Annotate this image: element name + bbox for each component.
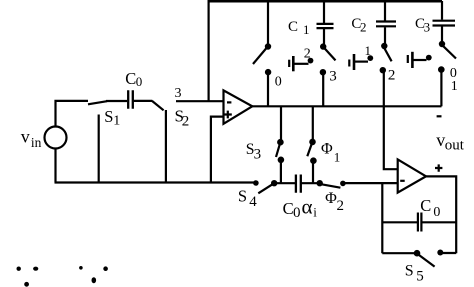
svg-text:1: 1 (113, 113, 120, 128)
switch S1 arm (88, 101, 107, 104)
svg-text:0: 0 (275, 75, 282, 90)
node C1 switch top contact (320, 43, 326, 49)
svg-text:2: 2 (337, 198, 345, 214)
wire S2 ground throw (165, 110, 167, 183)
wire C1 switch to output line (322, 72, 324, 106)
phase contact symbol (near C3) (407, 55, 409, 63)
svg-text:Φ: Φ (321, 141, 333, 158)
node S4 junction (271, 180, 277, 186)
label plus polarity (435, 164, 442, 171)
U1 plus mark (224, 111, 232, 119)
capacitor C1 (317, 24, 334, 28)
wire v_in bottom to ground rail (54, 149, 56, 183)
wire C2 switch down to op-amp U2 upper input (384, 70, 398, 169)
op-amp U2 (398, 159, 426, 192)
node switch0 bottom contact (265, 69, 271, 75)
svg-text:4: 4 (249, 194, 257, 210)
switch C1 arm (325, 48, 336, 60)
wire U1 output line (252, 105, 442, 107)
svg-text:0: 0 (433, 205, 440, 220)
node Phi1 bottom contact (310, 157, 317, 164)
speck (24, 282, 29, 287)
wire C3 to switch (441, 27, 443, 42)
wire drop to Phi1 (312, 106, 314, 140)
node S3 bottom contact (278, 157, 285, 164)
svg-text:5: 5 (416, 269, 424, 285)
svg-text:0: 0 (293, 205, 301, 221)
wire C0 to S2 (133, 100, 153, 102)
wire S3 to summing wire (280, 160, 282, 183)
capacitor C2 (376, 22, 396, 27)
wire branch drop to C1 (323, 1, 325, 23)
svg-text:1: 1 (334, 149, 341, 164)
capacitor C0 alpha_i (296, 175, 301, 193)
svg-text:1: 1 (365, 43, 372, 58)
wire left riser from inverting input to top rail (208, 1, 210, 101)
wire branch drop to switch position 0 (267, 1, 269, 44)
phase contact symbol 1 (near C2) (348, 60, 350, 67)
node S4 fixed contact (253, 180, 259, 186)
svg-text:C: C (125, 69, 136, 88)
node C3 switch top contact (439, 41, 445, 47)
svg-text:1: 1 (303, 22, 310, 37)
svg-text:Φ: Φ (325, 190, 337, 207)
wire inverting node down to feedback (381, 183, 383, 253)
phase contact symbol 2 (near C1) (288, 60, 290, 67)
wire S1 to C0 (106, 100, 127, 102)
node S5 fixed contact (437, 250, 443, 256)
switch S3 arm (276, 145, 280, 157)
svg-text:3: 3 (424, 20, 431, 35)
speck (17, 267, 21, 271)
ground rail bottom (55, 181, 258, 183)
svg-text:2: 2 (182, 114, 190, 130)
wire sampling cap to Phi2 (301, 182, 320, 184)
svg-text:α: α (302, 194, 313, 218)
label minus polarity (437, 115, 442, 117)
wire U2 output (426, 176, 457, 253)
svg-text:1: 1 (451, 79, 458, 94)
wire S1 ground throw (98, 115, 100, 183)
switch C3 arm (443, 46, 456, 58)
wire S5 left lead (382, 252, 414, 254)
wire C1 to switch (323, 29, 325, 44)
wire feedback cap right lead (421, 221, 456, 223)
switch position-0 arm (253, 48, 267, 64)
wire v_in top to S1 (56, 101, 89, 127)
node Phi2 fixed contact (340, 181, 346, 187)
switch S2 arm (152, 101, 164, 110)
svg-text:i: i (313, 204, 317, 219)
svg-text:2: 2 (360, 19, 367, 34)
switch Phi2 arm (322, 184, 341, 187)
wire U1 non-inverting input (211, 117, 224, 183)
svg-text:S: S (238, 187, 247, 206)
wire Phi1 to summing wire (312, 161, 314, 184)
switch S4 arm (258, 183, 274, 193)
wire rail corner drop to C3 (441, 1, 443, 20)
svg-text:C: C (420, 196, 431, 215)
node C3 switch bottom contact (438, 66, 445, 73)
switch C2 arm (384, 47, 392, 61)
op-amp U1 (224, 90, 253, 123)
svg-text:2: 2 (388, 68, 396, 84)
svg-text:v: v (21, 127, 30, 147)
wire feedback cap left lead (382, 221, 417, 223)
wire branch drop to C2 (384, 1, 386, 21)
svg-text:in: in (31, 135, 42, 150)
capacitor C0 feedback (418, 213, 422, 232)
node switch0 top contact (265, 43, 271, 49)
node S5 pole (414, 250, 421, 257)
wire top feedback rail (208, 0, 443, 3)
svg-text:S: S (104, 107, 113, 126)
wire S5 right lead (440, 252, 456, 254)
speck (79, 266, 83, 270)
svg-text:3: 3 (175, 86, 182, 101)
node S3 top contact (277, 139, 284, 146)
capacitor C0 input (128, 90, 133, 109)
U1 minus mark (227, 101, 231, 103)
wire C3 switch down and left to output line (440, 70, 442, 107)
wire summing node to sampling cap (274, 182, 295, 184)
svg-text:3: 3 (329, 69, 337, 85)
speck (92, 277, 97, 283)
U2 minus mark (400, 180, 405, 182)
speck (33, 267, 38, 271)
switch S5 arm (419, 255, 435, 267)
node Phi1 top contact (309, 139, 316, 146)
svg-text:2: 2 (304, 47, 311, 62)
source v_in (45, 127, 67, 149)
wire Phi2 to op-amp U2 inverting input (343, 182, 398, 184)
wire drop to S3 (280, 106, 282, 140)
capacitor C3 (433, 21, 456, 26)
svg-text:3: 3 (254, 146, 262, 162)
wire switch0 to output line (267, 72, 269, 106)
wire C2 to switch (384, 27, 386, 43)
node C1 switch bottom contact (320, 69, 326, 75)
svg-text:S: S (405, 262, 414, 279)
svg-text:C: C (288, 19, 298, 35)
switch Phi1 arm (307, 145, 311, 157)
svg-text:0: 0 (136, 74, 143, 89)
wire node3 to op-amp U1 inverting input (176, 100, 224, 102)
node C2 switch bottom contact (380, 67, 386, 73)
svg-text:out: out (445, 137, 465, 153)
node C2 switch top contact (381, 43, 387, 49)
node Phi2 pole (317, 180, 323, 186)
speck (103, 266, 108, 271)
